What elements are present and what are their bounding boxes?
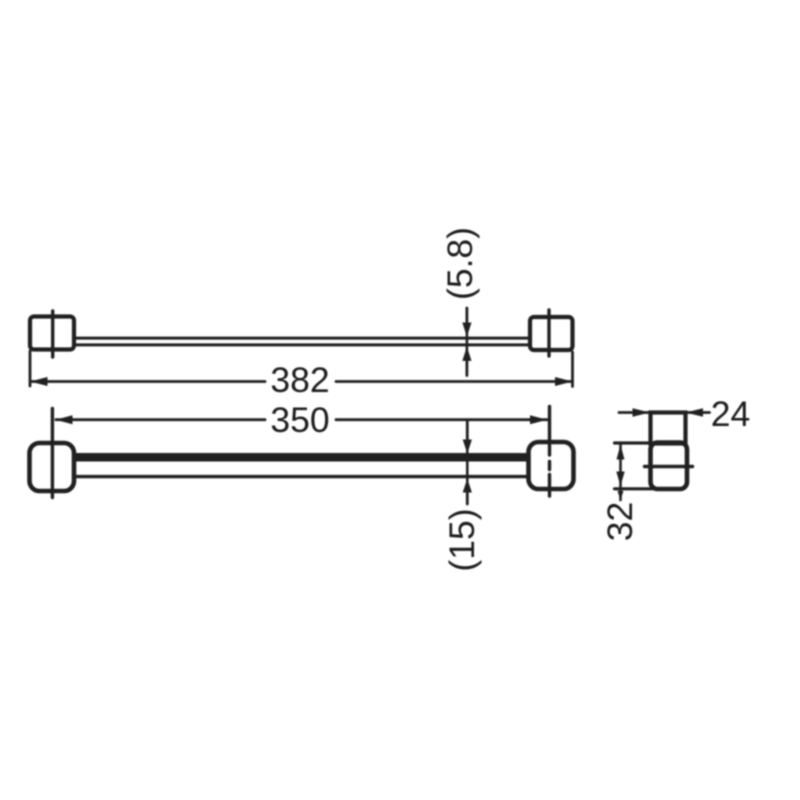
- front view: bar top thick edge: [74, 453, 529, 462]
- dim (15): upper arrowhead pointing down: [463, 440, 472, 454]
- dim 350: right arrowhead: [530, 415, 547, 424]
- svg-text:(15): (15): [442, 508, 482, 571]
- dim 382: left arrowhead: [30, 377, 48, 386]
- dim 350: dimension line right segment: [336, 418, 547, 421]
- front view: left end cap: [30, 443, 75, 491]
- dim (5.8): upper arrow stem: [465, 308, 468, 325]
- top view: bar lower edge line: [74, 343, 530, 346]
- dim 24: left arrowhead pointing right: [633, 408, 651, 417]
- top view: right cap mounting centerline: [547, 310, 550, 356]
- top view: right end cap: [530, 317, 573, 350]
- top view: left end cap: [30, 317, 74, 350]
- front view: right cap centerline lower segment: [548, 475, 551, 497]
- dim (5.8): stem crossing the bar: [466, 332, 469, 352]
- dim (5.8): upper arrowhead pointing down: [462, 323, 471, 337]
- side view: cap rounded square: [651, 443, 688, 490]
- dim (15): lower arrowhead pointing up: [463, 479, 472, 493]
- dim (5.8): lower arrow stem: [465, 361, 468, 376]
- svg-text:24: 24: [711, 394, 751, 434]
- front view: bar bottom edge: [74, 475, 529, 478]
- svg-text:350: 350: [270, 400, 329, 440]
- dim 350: left arrowhead: [56, 415, 73, 424]
- dim 382: right extension line: [571, 352, 574, 387]
- dim (5.8): lower arrowhead pointing up: [462, 347, 471, 361]
- svg-text:(5.8): (5.8): [440, 227, 480, 300]
- dim 32: bottom extension line: [615, 487, 679, 490]
- svg-text:32: 32: [600, 502, 640, 542]
- side view: bar position tick line: [645, 465, 693, 468]
- dim (15): lower arrow stem: [466, 492, 469, 504]
- dim 350: dimension line left segment: [56, 418, 265, 421]
- dim 32: lower arrowhead pointing down: [616, 472, 624, 487]
- dim 382: right arrowhead: [555, 377, 573, 386]
- dim (15): stem crossing the bar: [466, 450, 469, 481]
- dim 32: top extension line: [615, 441, 685, 444]
- dim 382: dimension line left segment: [32, 380, 266, 383]
- dim 32: tail blob below bottom extension: [618, 491, 624, 500]
- dim 24: right arrowhead pointing left: [686, 408, 704, 417]
- dim 24: dimension line right tail: [687, 411, 710, 414]
- side view: mounting post square: [651, 413, 686, 444]
- dim 32: upper arrowhead pointing up: [617, 445, 625, 460]
- front view: right cap mounting centerline (chain line, upper segment): [548, 407, 551, 456]
- front view: left cap mounting centerline: [51, 409, 54, 498]
- top view: bar upper edge line: [74, 337, 530, 340]
- svg-text:382: 382: [270, 360, 329, 400]
- dim 382: dimension line right segment: [336, 380, 571, 383]
- dim (15): upper arrow stem: [466, 422, 469, 441]
- dim 24: dimension line left tail: [619, 411, 648, 414]
- front view: right end cap: [529, 442, 574, 489]
- front view: right cap centerline short dash: [548, 462, 551, 470]
- dim 382: left extension line: [29, 351, 32, 386]
- top view: left cap mounting centerline: [51, 311, 54, 357]
- dim 32: vertical dimension line: [619, 444, 622, 500]
